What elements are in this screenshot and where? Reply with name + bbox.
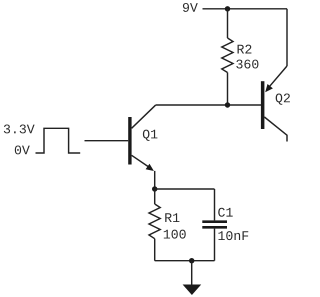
label 9V: [183, 3, 198, 12]
transistor Q1 base bar: [128, 117, 131, 165]
transistor Q1 collector diagonal: [132, 105, 156, 128]
wire input to Q1 base: [85, 140, 129, 142]
wire emitter node to C1 branch: [155, 188, 215, 190]
node junction dot emitter (R1 / C1 top): [152, 186, 157, 191]
label R1: [165, 213, 179, 222]
node junction dot mid (R2 / Q2 base): [225, 102, 230, 107]
label Q1: [143, 130, 158, 141]
wire R1 top lead: [154, 189, 156, 204]
capacitor C1 top plate: [202, 220, 227, 223]
wire mid rail Q1 collector to Q2 base: [156, 104, 262, 106]
label 10nF: [218, 231, 248, 240]
node junction dot bottom (ground tap): [189, 258, 194, 263]
resistor R2: [222, 38, 233, 73]
transistor Q2 emitter arrow (PNP, points into base): [265, 84, 273, 92]
input pulse waveform: [36, 128, 81, 153]
transistor Q1 emitter diagonal: [132, 155, 151, 168]
wire Q1 emitter vertical: [154, 171, 156, 189]
transistor Q2 emitter diagonal: [268, 66, 288, 89]
transistor Q2 base bar: [261, 81, 265, 129]
transistor Q2 collector diagonal: [264, 117, 287, 142]
wire C1 top lead: [214, 189, 216, 220]
label C1: [218, 208, 232, 217]
wire C1 bottom lead: [214, 229, 216, 261]
label 3.3V: [4, 124, 35, 133]
label R2: [238, 45, 252, 54]
transistor Q1 emitter arrow (NPN, points out): [146, 164, 154, 171]
node junction dot top (9V rail / R2): [225, 6, 230, 11]
wire R2 top lead: [227, 9, 229, 38]
wire R2 bottom lead: [227, 73, 229, 106]
label 360: [236, 60, 258, 69]
label 100: [164, 230, 186, 239]
wire bottom rail: [155, 260, 215, 262]
wire top rail 9V: [203, 8, 288, 10]
wire R1 bottom lead: [154, 239, 156, 261]
label 0V: [15, 145, 30, 154]
ground: [183, 285, 202, 296]
capacitor C1 bottom plate: [202, 226, 227, 229]
label Q2: [276, 93, 290, 104]
wire ground stem: [191, 261, 193, 285]
resistor R1: [149, 204, 160, 239]
wire right vertical to Q2 emitter: [286, 9, 288, 66]
